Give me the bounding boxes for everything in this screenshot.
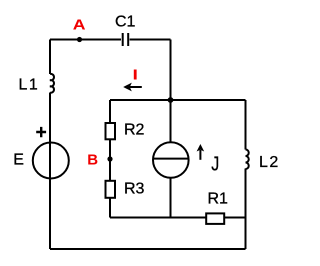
svg-text:R3: R3 bbox=[124, 181, 145, 198]
svg-text:J: J bbox=[211, 153, 219, 175]
svg-text:I: I bbox=[133, 66, 138, 83]
svg-text:R1: R1 bbox=[208, 191, 229, 208]
svg-text:R2: R2 bbox=[124, 122, 145, 139]
svg-text:B: B bbox=[87, 152, 98, 169]
svg-text:C1: C1 bbox=[115, 13, 136, 30]
svg-text:L2: L2 bbox=[259, 154, 280, 171]
svg-text:L1: L1 bbox=[19, 77, 40, 94]
svg-text:A: A bbox=[73, 17, 86, 33]
svg-text:E: E bbox=[13, 151, 24, 168]
